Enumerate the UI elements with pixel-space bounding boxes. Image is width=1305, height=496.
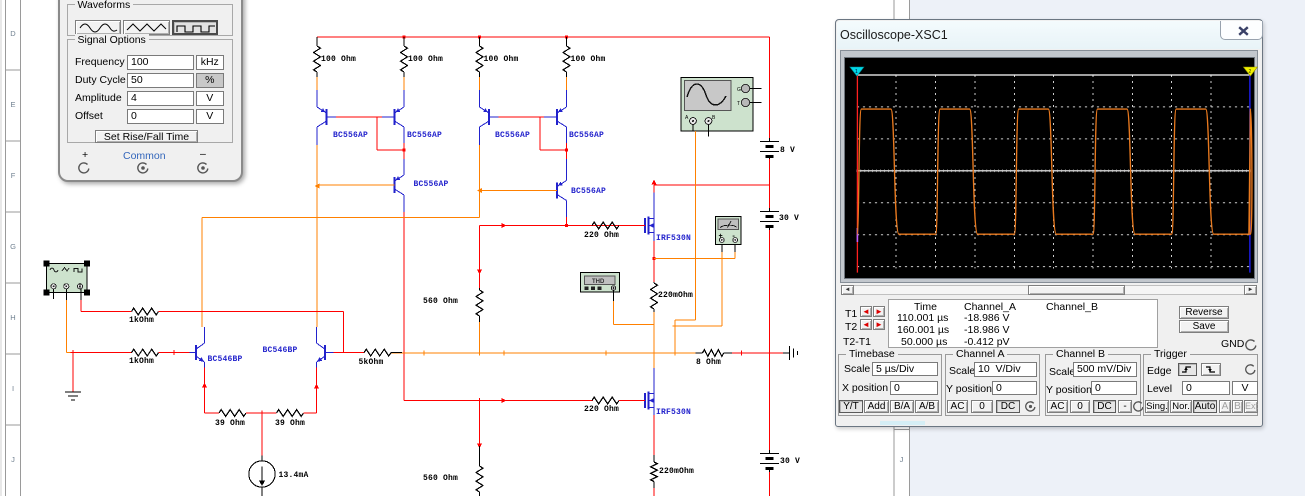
- junction top rail col4: [565, 35, 568, 38]
- wire: Q5 collector / VAS to lower gate: [403, 202, 405, 212]
- resistor R15 39 Ohm: [277, 410, 304, 417]
- wire: V3 to bottom: [769, 472, 771, 496]
- transistor Q5 BC556AP: [395, 175, 405, 181]
- junction marker upper gate rail: [502, 223, 507, 228]
- wire: emitter junction: [246, 412, 277, 414]
- junction Q2 collector/base tie: [402, 148, 405, 151]
- junction Q4 collector/base tie: [565, 148, 568, 151]
- junction scope A / rail: [673, 351, 678, 356]
- scope scrollbar: [841, 285, 1257, 295]
- resistor R7 560 Ohm (upper): [476, 290, 483, 316]
- wire: node to V2: [769, 185, 771, 209]
- resistor R8 560 Ohm (lower): [479, 401, 481, 447]
- resistor R11 8 Ohm: [696, 352, 703, 354]
- radio Common: [137, 162, 149, 174]
- arrow marker: [314, 384, 319, 389]
- channel A group: [945, 354, 1040, 416]
- junction Q6 collector/rail: [565, 224, 568, 227]
- wire: Q6 emitter: [566, 159, 568, 181]
- oscilloscope window XSC1: [835, 19, 1263, 427]
- resistor R1 100 Ohm: [316, 37, 318, 46]
- svg-text:1: 1: [855, 69, 858, 75]
- svg-text:2: 2: [1249, 69, 1252, 75]
- THD meter icon: [581, 273, 620, 293]
- wire: XFG1 terminal stubs: [53, 289, 55, 299]
- wire: common to R13: [73, 352, 132, 354]
- junction marker: [172, 350, 177, 355]
- junction tail: [260, 411, 265, 416]
- wire below R1: [316, 77, 318, 90]
- wire: M1 source: [653, 233, 655, 242]
- battery V1 8 V: [760, 141, 779, 143]
- wire: probe + lead: [721, 245, 723, 253]
- wire: R13 to Q7 base: [159, 352, 190, 354]
- cursor T2: [1249, 75, 1251, 273]
- wire: +30V node to M1 drain: [654, 184, 770, 186]
- wire: current source bottom: [261, 487, 263, 496]
- wire: upper gate rail: [480, 225, 634, 227]
- wire below R2: [403, 77, 405, 90]
- wire: Q7 collector up: [204, 327, 206, 338]
- voltmeter probe icon: [716, 217, 742, 245]
- junction probe/scope A: [673, 324, 678, 329]
- arrow marker: [652, 180, 657, 185]
- wire: M1 drain: [653, 193, 655, 219]
- ground (output): [783, 352, 789, 354]
- junction top rail col3: [478, 35, 481, 38]
- wire: XFG1 common down: [65, 300, 67, 353]
- wire: V1 to node: [769, 159, 771, 185]
- wire: R12 to Q8 base: [159, 311, 344, 313]
- cursor T1: [856, 75, 858, 273]
- wire: Q3-Q4 base tie: [489, 116, 499, 118]
- wire: M2 source: [653, 408, 655, 416]
- wire: output rail: [390, 352, 696, 354]
- wire: Q2 collector to Q5 emitter: [403, 134, 405, 143]
- resistor R10 220mOhm (lower): [653, 455, 655, 462]
- junction marker: [739, 351, 744, 356]
- resistor R3 100 Ohm: [479, 37, 481, 46]
- wire: Q3 collector down (node B): [479, 134, 481, 145]
- resistor R12 1kOhm: [132, 308, 159, 315]
- wire: V2 down through midpoint: [769, 230, 771, 451]
- wire: Q1 collector down (node A): [316, 134, 318, 145]
- wire: top rail down to V1: [769, 37, 771, 139]
- sheet right border strip: [893, 0, 895, 496]
- resistor R4 100 Ohm: [566, 37, 568, 46]
- transistor Q7 BC546BP: [195, 345, 197, 360]
- connector arrow node A: [315, 184, 320, 189]
- junction marker gate line: [502, 398, 507, 403]
- junction 560 Ohm / rail: [477, 351, 482, 356]
- wire: Q7 emitter down: [204, 368, 206, 413]
- arrow marker: [477, 270, 482, 275]
- junction top rail col2: [402, 35, 405, 38]
- wire: 5kOhm to output rail: [391, 352, 402, 354]
- resistor R14 39 Ohm: [219, 410, 246, 417]
- wire: +V top rail: [317, 36, 770, 38]
- radio -: [197, 162, 209, 174]
- transistor Q6 BC556AP: [557, 181, 567, 187]
- current source I1 13.4mA: [249, 461, 275, 487]
- wire: XFG1 - output: [80, 300, 82, 312]
- wire: 560 Ohm upper leg: [479, 226, 481, 289]
- resistor R6 220 Ohm (lower): [592, 397, 619, 404]
- resistor R5 220 Ohm (upper): [591, 225, 593, 227]
- resistor R2 100 Ohm: [403, 37, 405, 46]
- wire: scope A probe: [692, 125, 694, 132]
- wire: to ground: [72, 353, 74, 392]
- resistor R16 5kOhm: [364, 349, 391, 356]
- function generator icon XFG1: [47, 264, 88, 293]
- transistor M1 IRF530N (upper): [644, 218, 646, 233]
- connector arrow node B: [477, 188, 482, 193]
- wire: M2 drain: [653, 368, 655, 394]
- channel A waveform: [857, 109, 1252, 234]
- wire: Q8 base stub: [325, 352, 334, 354]
- trigger group: [1143, 354, 1258, 416]
- oscilloscope icon XSC1: [681, 78, 753, 132]
- scope graticule: [895, 75, 897, 269]
- transistor Q8 BC546BP: [324, 345, 326, 360]
- wire: scope B stub: [708, 125, 710, 137]
- scope screen: [840, 50, 1258, 283]
- channel B group: [1045, 354, 1141, 416]
- wire below R3: [479, 77, 481, 90]
- junction rail / supply midpoint: [767, 351, 772, 356]
- wire: THD input: [613, 290, 615, 301]
- wire: Q6 collector: [566, 208, 568, 218]
- wire: Q1-Q2 base tie: [327, 116, 337, 118]
- wire: rail to ground (ground net): [732, 352, 783, 354]
- timebase group: [838, 354, 942, 416]
- wire below R4: [566, 77, 568, 90]
- wire: Q8 collector up: [316, 327, 318, 338]
- wire: Q6 base to node B: [480, 190, 558, 192]
- wire: node A horizontal link: [202, 217, 480, 219]
- wire: R15 to Q8 emitter: [304, 412, 317, 414]
- transistor Q4 BC556AP: [557, 107, 567, 113]
- radio +: [78, 162, 90, 174]
- ground (input): [65, 391, 81, 393]
- out-of-sheet background: [910, 0, 1305, 496]
- junction common/ground: [70, 350, 75, 355]
- junction M1 source/probe: [652, 257, 655, 260]
- selection handles XFG1: [44, 261, 50, 267]
- function generator dialog panel: [58, 0, 243, 182]
- junction output rail markers: [422, 351, 427, 356]
- transistor Q3 BC556AP: [480, 107, 490, 113]
- wire: Q8 base/collector node to 5kOhm: [344, 352, 364, 354]
- wire: Q7 base stub: [190, 352, 197, 354]
- battery V3 30 V: [760, 453, 779, 455]
- arrow marker: [477, 444, 482, 449]
- transistor Q2 BC556AP: [395, 107, 405, 113]
- arrow marker: [202, 383, 207, 388]
- resistor R13 1kOhm: [132, 349, 159, 356]
- scope readout: [888, 299, 1158, 348]
- resistor R9 220mOhm (upper): [651, 283, 658, 309]
- transistor Q1 BC556AP: [317, 107, 327, 113]
- wire: Q5 emitter: [403, 159, 405, 175]
- close button: [1220, 21, 1263, 40]
- sheet left border strip: [0, 0, 2, 496]
- wire: tail to current source: [261, 413, 263, 456]
- battery V2 30 V: [760, 211, 779, 213]
- channel B trace fragment: [856, 228, 858, 242]
- junction 560 Ohm tap: [477, 398, 482, 403]
- wire: probe - lead: [734, 245, 736, 253]
- wire: Q4 collector to Q6 emitter: [566, 134, 568, 143]
- wire: Q5 base: [317, 184, 395, 186]
- transistor M2 IRF530N (lower): [644, 393, 646, 408]
